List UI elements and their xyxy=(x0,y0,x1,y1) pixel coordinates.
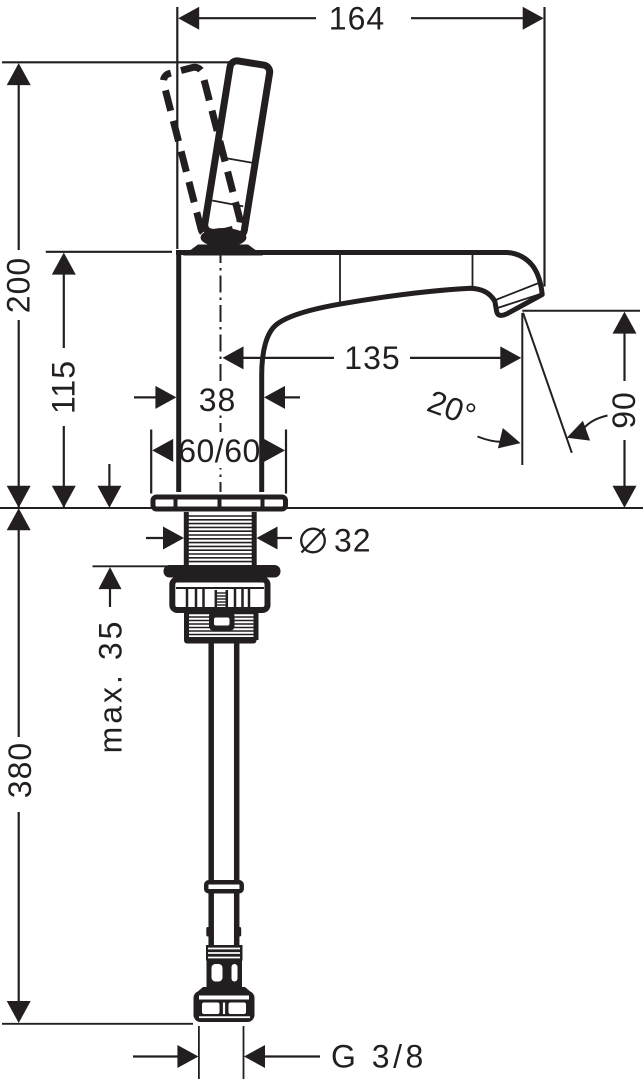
dimension 115 extension line top xyxy=(46,251,172,253)
svg-text:115: 115 xyxy=(46,360,82,414)
centerline faucet axis xyxy=(220,246,222,492)
dimension 60/60 label xyxy=(172,432,266,469)
supply pipe upper xyxy=(211,643,237,880)
svg-text:32: 32 xyxy=(334,523,372,559)
dimension G3/8 arrows xyxy=(133,1045,320,1068)
threaded shank xyxy=(186,512,254,565)
handle pivot base xyxy=(201,228,247,247)
20 degree slant line xyxy=(523,313,572,453)
dimension 38 label xyxy=(196,382,238,418)
pipe collar xyxy=(206,882,242,891)
spout segment division lines xyxy=(340,255,473,306)
dimension 38 arrows xyxy=(134,386,300,409)
dimension max.35 arrow xyxy=(99,567,122,607)
faucet handle lever solid xyxy=(204,60,271,237)
faucet body and spout outline xyxy=(176,253,542,493)
dimension 60/60 arrows xyxy=(152,439,285,462)
svg-text:max. 35: max. 35 xyxy=(93,619,129,754)
baseline mounting surface xyxy=(0,507,643,509)
lower threaded section xyxy=(184,610,257,644)
dimension G3/8 extension lines xyxy=(198,1026,200,1079)
dimension 90 line and arrows xyxy=(613,312,637,508)
dimension 90 leader arrow xyxy=(567,416,608,441)
svg-text:90: 90 xyxy=(606,391,642,429)
svg-text:135: 135 xyxy=(344,340,400,376)
spout tip vertical extension line xyxy=(521,313,523,465)
reference arrow at mounting plane xyxy=(97,464,121,508)
dimension 115 line and arrows xyxy=(52,253,76,508)
dimension 164 line and arrows xyxy=(178,7,544,30)
rubber washer xyxy=(164,565,281,578)
dimension 20deg leader arrow xyxy=(478,428,521,448)
faucet body left edge xyxy=(176,254,181,492)
svg-text:200: 200 xyxy=(1,257,37,313)
connector end cap G3/8 xyxy=(194,987,255,1022)
svg-text:60/60: 60/60 xyxy=(178,433,261,469)
mounting nut xyxy=(172,580,267,611)
supply pipe lower xyxy=(211,894,237,947)
connector clip section xyxy=(207,959,243,989)
dimension 164 extension line left xyxy=(176,7,178,249)
svg-text:380: 380 xyxy=(2,742,38,798)
dimension 380 extension line bottom xyxy=(2,1023,193,1025)
dimension 380 line and arrows xyxy=(7,508,31,1023)
dimension 200 extension line top xyxy=(2,61,259,63)
dimension 164 extension line right xyxy=(543,7,545,287)
dimension diameter 32 arrows xyxy=(146,527,292,550)
dimension 135 line and arrows xyxy=(223,346,522,369)
dimension diameter 32 label xyxy=(301,523,371,559)
dimension max.35 extension line xyxy=(93,565,177,567)
faucet handle lever dashed (second position) xyxy=(162,66,242,237)
svg-text:164: 164 xyxy=(329,1,385,37)
threaded rod in nut xyxy=(216,590,227,617)
washer lower bar xyxy=(179,577,267,583)
handle dome xyxy=(183,245,263,256)
svg-text:38: 38 xyxy=(199,382,237,418)
spout tip horizontal extension line xyxy=(522,310,640,312)
dimension 60/60 extension lines xyxy=(150,430,152,494)
connector threaded collar xyxy=(206,945,243,961)
spout aerator face lines xyxy=(496,283,543,309)
pipe wall nubs xyxy=(206,927,209,937)
thread bottom bar xyxy=(184,637,257,644)
svg-text:G 3/8: G 3/8 xyxy=(331,1039,427,1075)
hose nipple detail xyxy=(209,612,235,631)
dimension 200 line and arrows xyxy=(7,63,31,508)
escutcheon base plate xyxy=(153,496,286,510)
